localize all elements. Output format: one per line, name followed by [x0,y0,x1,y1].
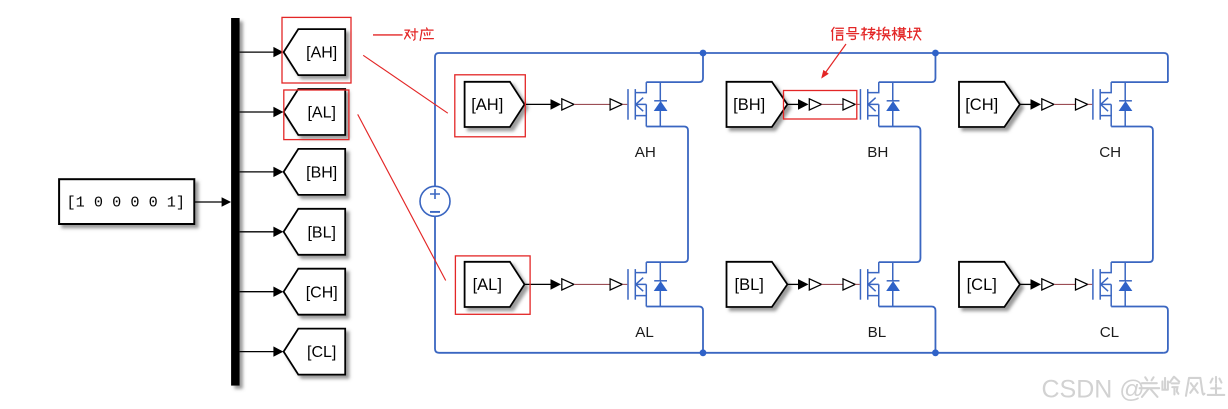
svg-text:[BL]: [BL] [735,276,764,294]
svg-text:[BH]: [BH] [733,96,765,114]
svg-text:CH: CH [1099,144,1121,161]
svg-text:CL: CL [1100,324,1119,341]
svg-text:[CH]: [CH] [306,284,338,301]
svg-text:[AL]: [AL] [473,276,502,294]
svg-text:AL: AL [635,324,654,341]
svg-text:[AH]: [AH] [306,45,337,62]
svg-text:[BL]: [BL] [307,224,335,241]
svg-text:BH: BH [867,144,888,161]
svg-text:[1 0 0 0 0 1]: [1 0 0 0 0 1] [67,194,185,212]
svg-text:[AL]: [AL] [307,105,335,122]
svg-text:[AH]: [AH] [471,96,503,114]
svg-text:[CL]: [CL] [967,276,997,294]
svg-text:[CL]: [CL] [307,344,336,361]
svg-text:AH: AH [635,144,656,161]
svg-text:[CH]: [CH] [965,96,998,114]
svg-text:BL: BL [868,324,887,341]
svg-text:CSDN @: CSDN @ [1042,375,1145,403]
svg-text:[BH]: [BH] [306,165,337,182]
